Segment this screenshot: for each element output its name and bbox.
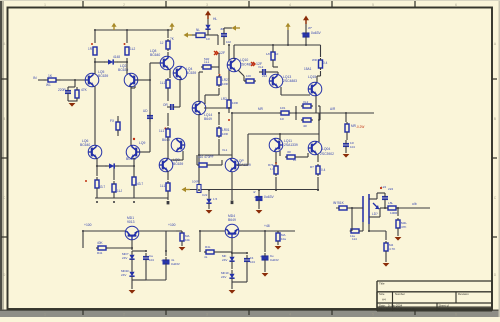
svg-text:3R: 3R [287, 150, 291, 154]
svg-text:100R: 100R [390, 211, 398, 215]
svg-text:VL2: VL2 [258, 65, 264, 69]
svg-text:2SC4883: 2SC4883 [283, 79, 297, 83]
svg-text:6: 6 [455, 312, 457, 316]
svg-text:B: B [3, 117, 5, 121]
svg-text:Title: Title [379, 282, 385, 286]
svg-text:B649: B649 [204, 117, 212, 121]
svg-text:-0.2W: -0.2W [356, 125, 364, 129]
svg-text:LD?: LD? [372, 212, 378, 216]
svg-text:Number: Number [395, 292, 405, 296]
svg-text:1/F: 1/F [266, 52, 270, 56]
svg-text:HL: HL [213, 17, 217, 21]
svg-text:0u63V: 0u63V [311, 31, 321, 35]
svg-text:100: 100 [246, 74, 251, 78]
svg-text:R?: R? [310, 165, 314, 169]
svg-text:2SA1339: 2SA1339 [284, 143, 298, 147]
svg-text:Drawn By:: Drawn By: [439, 307, 452, 311]
svg-text:BC640: BC640 [150, 53, 160, 57]
svg-text:1L1: 1L1 [160, 81, 165, 85]
svg-text:LR2: LR2 [221, 97, 227, 101]
svg-text:1: 1 [44, 3, 46, 7]
svg-text:224: 224 [388, 187, 393, 191]
svg-text:1L1: 1L1 [159, 129, 164, 133]
svg-text:4L: 4L [204, 255, 208, 259]
svg-text:+48: +48 [264, 224, 270, 228]
svg-text:0.4: 0.4 [321, 168, 326, 172]
svg-text:UD: UD [143, 109, 148, 113]
svg-text:43.7: 43.7 [99, 185, 105, 189]
svg-text:15A1: 15A1 [304, 67, 312, 71]
svg-text:51R: 51R [204, 57, 209, 61]
svg-text:51K: 51K [338, 201, 345, 205]
svg-text:9013: 9013 [127, 220, 135, 224]
svg-text:BC640: BC640 [126, 157, 136, 161]
svg-text:5: 5 [372, 3, 374, 7]
svg-text:4.7K: 4.7K [389, 247, 395, 251]
svg-text:1R: 1R [206, 37, 210, 41]
svg-text:VL1: VL1 [222, 148, 228, 152]
svg-text:R41: R41 [97, 251, 103, 255]
svg-text:4: 4 [289, 3, 291, 7]
svg-text:L8L: L8L [388, 201, 393, 205]
svg-text:43.7: 43.7 [137, 182, 143, 186]
svg-text:LQ15: LQ15 [308, 75, 316, 79]
svg-text:1LJ: 1LJ [117, 189, 122, 193]
svg-text:B649: B649 [162, 138, 170, 142]
svg-text:104: 104 [250, 260, 255, 264]
svg-text:A/R: A/R [330, 107, 336, 111]
svg-text:0u63V: 0u63V [264, 195, 274, 199]
svg-text:1RR: 1RR [222, 82, 228, 86]
svg-text:220R: 220R [58, 88, 66, 92]
svg-text:1L: 1L [293, 158, 297, 162]
svg-text:100R: 100R [192, 180, 200, 184]
svg-text:BC639: BC639 [173, 162, 183, 166]
svg-text:1L2: 1L2 [130, 47, 135, 51]
svg-text:+: + [301, 32, 303, 36]
svg-text:R4L: R4L [205, 245, 211, 249]
svg-text:10k: 10k [185, 238, 190, 242]
svg-text:0u63V: 0u63V [171, 262, 181, 266]
svg-text:2SC3902: 2SC3902 [320, 152, 334, 156]
svg-text:110 470PF: 110 470PF [198, 155, 214, 159]
svg-text:Size: Size [379, 292, 385, 296]
svg-text:1RR: 1RR [232, 101, 238, 105]
svg-text:+: + [161, 259, 163, 263]
svg-text:1.5: 1.5 [213, 197, 218, 201]
svg-text:D:\AMP\MyDesign.ddb: D:\AMP\MyDesign.ddb [386, 307, 415, 311]
svg-text:Revision: Revision [458, 292, 469, 296]
svg-text:OR: OR [163, 103, 168, 107]
svg-text:+100: +100 [84, 223, 92, 227]
svg-text:+100: +100 [168, 223, 176, 227]
svg-text:LQ04: LQ04 [322, 147, 330, 151]
svg-text:1RR: 1RR [222, 132, 228, 136]
svg-text:4/: 4/ [253, 190, 256, 194]
svg-text:WR: WR [312, 58, 317, 62]
svg-text:1L1: 1L1 [160, 184, 165, 188]
svg-text:IN: IN [33, 76, 37, 80]
svg-text:104: 104 [350, 145, 355, 149]
svg-text:B: B [494, 117, 496, 121]
svg-text:10: 10 [275, 52, 279, 56]
svg-text:+: + [260, 255, 262, 259]
svg-text:47K: 47K [81, 88, 88, 92]
svg-text:4148: 4148 [113, 55, 120, 59]
svg-text:12F: 12F [219, 51, 226, 55]
svg-text:2: 2 [123, 312, 125, 316]
svg-text:2: 2 [123, 3, 125, 7]
svg-text:C22: C22 [202, 193, 208, 197]
svg-text:104: 104 [149, 258, 154, 262]
svg-text:JR: JR [220, 27, 224, 31]
svg-text:1R1: 1R1 [88, 47, 94, 51]
svg-text:NL: NL [196, 28, 200, 32]
svg-text:3: 3 [206, 3, 208, 7]
svg-text:LQ9: LQ9 [139, 141, 145, 145]
svg-text:3: 3 [206, 312, 208, 316]
svg-text:1R: 1R [280, 117, 284, 121]
svg-text:BC640: BC640 [80, 143, 90, 147]
svg-text:224: 224 [262, 74, 267, 78]
svg-text:LQ10: LQ10 [240, 58, 248, 62]
svg-text:102: 102 [226, 40, 231, 44]
svg-text:o/b: o/b [412, 202, 417, 206]
svg-text:A4: A4 [382, 298, 386, 302]
svg-text:1: 1 [44, 312, 46, 316]
svg-text:10a: 10a [281, 237, 286, 241]
svg-text:5: 5 [372, 312, 374, 316]
svg-text:VL2: VL2 [303, 100, 309, 104]
svg-text:File:: File: [379, 307, 385, 311]
svg-text:4R: 4R [303, 124, 307, 128]
svg-text:B649: B649 [228, 218, 236, 222]
svg-text:0u63V: 0u63V [270, 258, 280, 262]
svg-text:47K: 47K [401, 225, 406, 229]
svg-text:MR: MR [258, 107, 264, 111]
svg-text:0.4: 0.4 [323, 61, 328, 65]
svg-text:1R1: 1R1 [280, 106, 286, 110]
svg-text:+: + [254, 196, 256, 200]
svg-text:BC639: BC639 [98, 74, 108, 78]
svg-text:1.0: 1.0 [270, 167, 274, 171]
svg-text:6: 6 [455, 3, 457, 7]
svg-text:114: 114 [352, 237, 357, 241]
svg-text:4: 4 [289, 312, 291, 316]
svg-text:W1: W1 [46, 83, 51, 87]
svg-text:40K: 40K [97, 241, 103, 245]
svg-text:BC639: BC639 [186, 71, 196, 75]
svg-text:1J: 1J [160, 41, 164, 45]
